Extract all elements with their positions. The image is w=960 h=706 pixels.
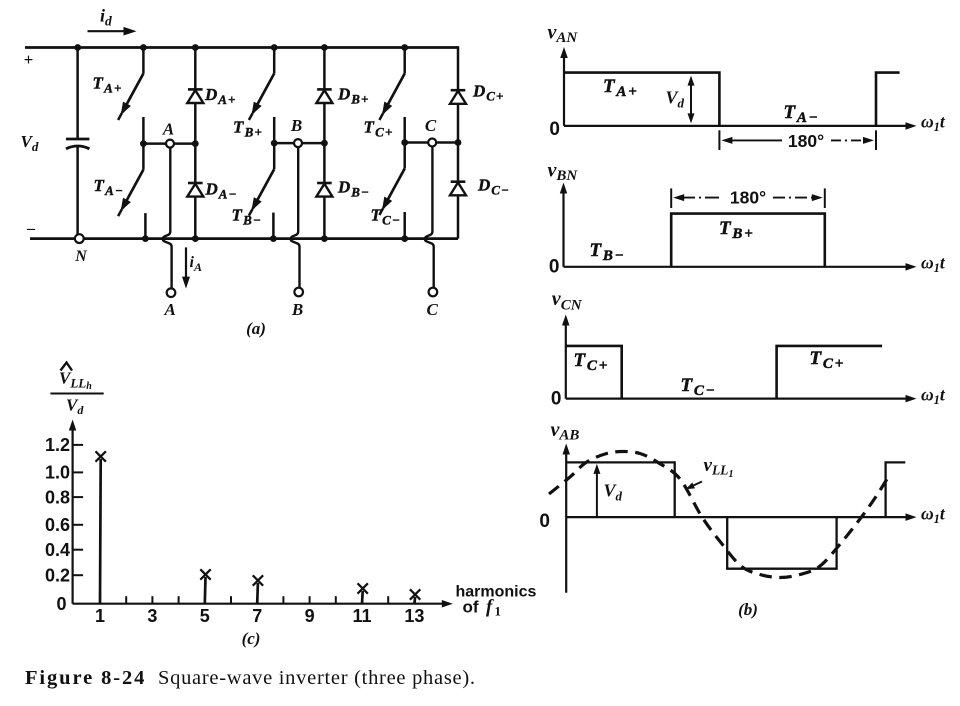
svg-text:id: id — [100, 6, 112, 29]
svg-text:TC+: TC+ — [364, 118, 394, 140]
harmonic spike n=13 — [413, 597, 416, 604]
junction dot top bus leg B switch — [271, 44, 278, 51]
harmonic spike n=7 — [256, 583, 259, 604]
svg-text:TC+: TC+ — [574, 350, 610, 374]
junction dot node C right — [455, 139, 462, 146]
svg-text:C: C — [425, 116, 437, 135]
diode DB- — [316, 183, 332, 197]
y tick 0.2 — [73, 574, 84, 576]
svg-text:TC+: TC+ — [810, 348, 846, 372]
svg-text:vCN: vCN — [552, 288, 583, 314]
node C open terminal on midpoint — [428, 139, 436, 147]
svg-text:180°: 180° — [788, 131, 824, 151]
svg-text:TC−: TC− — [681, 375, 717, 399]
svg-text:1: 1 — [495, 604, 502, 619]
wire phase node line C — [405, 141, 458, 144]
svg-text:vAB: vAB — [551, 419, 580, 444]
harmonic spike n=5 — [203, 577, 206, 604]
x tick 3 — [151, 596, 153, 604]
svg-text:TB+: TB+ — [233, 118, 263, 140]
svg-text:ω1t: ω1t — [921, 112, 946, 135]
svg-text:TA+: TA+ — [93, 74, 123, 96]
svg-text:TC−: TC− — [371, 206, 402, 228]
transistor TA+ upper switch — [118, 48, 143, 144]
junction dot node B left — [271, 140, 278, 147]
svg-text:N: N — [74, 248, 88, 265]
svg-text:B: B — [290, 116, 302, 135]
svg-text:vAN: vAN — [548, 22, 579, 47]
capacitor Vd dc-link — [66, 48, 89, 239]
junction dot bottom bus leg A diode branch — [192, 235, 199, 242]
svg-text:1.0: 1.0 — [45, 463, 70, 483]
y tick 1.2 — [73, 444, 84, 446]
wire diode branch leg B — [323, 48, 326, 91]
arrow iA current — [185, 247, 187, 278]
svg-text:(a): (a) — [246, 319, 266, 338]
svg-text:iA: iA — [190, 254, 202, 274]
svg-text:(b): (b) — [738, 600, 758, 619]
transistor TA- lower switch — [118, 144, 145, 239]
svg-text:0: 0 — [551, 389, 562, 410]
svg-text:B: B — [291, 300, 303, 319]
svg-text:A: A — [164, 300, 176, 319]
junction dot top bus leg A diode branch — [192, 44, 199, 51]
svg-text:Vd: Vd — [666, 88, 685, 111]
svg-text:ω1t: ω1t — [921, 253, 946, 276]
svg-text:vLL1: vLL1 — [704, 455, 734, 480]
svg-text:0.2: 0.2 — [45, 566, 70, 586]
diode DC- — [450, 182, 466, 196]
node B open terminal on midpoint — [294, 139, 302, 147]
svg-text:TA−: TA− — [94, 176, 125, 198]
svg-text:TB+: TB+ — [719, 218, 755, 242]
diode DC+ — [450, 90, 466, 104]
svg-text:Vd: Vd — [604, 481, 623, 504]
junction dot top bus / capacitor — [74, 44, 81, 51]
trace vCN square wave — [566, 346, 622, 399]
svg-text:0.4: 0.4 — [45, 540, 70, 560]
transistor TC+ upper switch — [379, 48, 404, 143]
svg-text:DB+: DB+ — [337, 85, 369, 107]
trace vBN square wave — [671, 214, 825, 267]
terminal B output — [294, 288, 303, 297]
svg-text:1: 1 — [95, 606, 105, 626]
svg-text:Vd: Vd — [66, 396, 84, 418]
junction dot node A right — [192, 140, 199, 147]
trace vAN square wave — [564, 73, 719, 126]
svg-text:180°: 180° — [730, 188, 766, 208]
svg-text:ω1t: ω1t — [921, 504, 946, 527]
junction dot top bus leg C switch — [401, 44, 408, 51]
svg-text:0.6: 0.6 — [45, 515, 70, 535]
svg-text:0: 0 — [549, 257, 560, 278]
svg-text:DA−: DA− — [205, 180, 238, 202]
wire phase A output with hop over bottom bus — [163, 148, 172, 289]
transistor TB+ upper switch — [249, 48, 274, 144]
svg-text:0.8: 0.8 — [45, 487, 70, 507]
svg-text:(c): (c) — [242, 629, 261, 648]
waveform panel vCN axes — [565, 324, 567, 399]
svg-text:0: 0 — [56, 594, 66, 614]
harmonic chart axes — [71, 428, 73, 604]
svg-text:7: 7 — [252, 606, 262, 626]
wire phase node line A — [143, 142, 195, 145]
svg-text:5: 5 — [200, 606, 210, 626]
svg-text:TA−: TA− — [784, 102, 820, 126]
svg-text:DC+: DC+ — [472, 82, 504, 104]
junction dot node A left — [140, 140, 147, 147]
svg-text:DA+: DA+ — [204, 85, 236, 107]
wire phase B output with hop over bottom bus — [291, 147, 300, 288]
x tick 8 — [282, 596, 284, 604]
svg-text:of: of — [463, 598, 479, 617]
terminal A output — [167, 288, 176, 297]
svg-text:TA+: TA+ — [603, 76, 639, 100]
dimension 180deg panel vAN — [719, 130, 876, 151]
x tick 6 — [230, 596, 232, 604]
svg-text:ω1t: ω1t — [921, 385, 946, 408]
svg-text:vBN: vBN — [548, 160, 579, 185]
svg-text:–: – — [26, 220, 36, 237]
svg-text:3: 3 — [147, 606, 157, 626]
harmonic spike n=11 — [361, 591, 364, 604]
harmonic spike n=1 — [99, 459, 102, 604]
junction dot node C left — [401, 139, 408, 146]
svg-text:Vd: Vd — [21, 132, 39, 154]
x tick 10 — [335, 596, 337, 604]
node A open terminal on midpoint — [166, 140, 174, 148]
junction dot bottom bus leg A switch — [142, 235, 149, 242]
diode DA+ — [187, 89, 203, 103]
svg-text:DC−: DC− — [477, 176, 510, 198]
trace vLL1 fundamental dashed sine — [549, 451, 890, 577]
svg-text:Figure 8-24: Figure 8-24 — [25, 667, 146, 689]
svg-text:1.2: 1.2 — [45, 435, 70, 455]
svg-text:Square-wave inverter (three ph: Square-wave inverter (three phase). — [158, 667, 476, 689]
x tick 9 — [309, 596, 311, 604]
dimension Vd arrow panel vAB — [596, 468, 598, 517]
wire phase node line B — [274, 142, 324, 145]
junction dot top bus leg A switch — [140, 44, 147, 51]
svg-text:TB−: TB− — [232, 206, 263, 228]
wire diode branch leg A — [194, 48, 197, 91]
svg-text:+: + — [24, 50, 34, 69]
waveform panel vAB axes — [565, 453, 567, 518]
junction dot top bus leg B diode branch — [321, 44, 328, 51]
waveform panel vAN axes — [563, 56, 565, 126]
label fraction VLLh over Vd — [50, 363, 103, 418]
junction dot bottom bus leg C switch — [401, 235, 408, 242]
wire top dc bus — [25, 46, 458, 49]
svg-text:A: A — [162, 120, 174, 139]
svg-text:0: 0 — [549, 119, 560, 140]
transistor TB- lower switch — [249, 143, 274, 239]
diode DB+ — [316, 89, 332, 103]
arrow id — [88, 30, 126, 32]
terminal C output — [429, 288, 438, 297]
x tick 12 — [387, 596, 389, 604]
junction dot bottom bus leg B switch — [270, 235, 277, 242]
y tick 0.4 — [73, 549, 84, 551]
svg-text:C: C — [427, 300, 439, 319]
svg-text:13: 13 — [404, 606, 424, 626]
x tick 4 — [178, 596, 180, 604]
trace vAB quasi-square wave — [566, 462, 675, 517]
wire bottom dc bus — [30, 237, 458, 240]
svg-text:TB−: TB− — [590, 240, 626, 264]
dimension Vd arrow panel vAN — [690, 79, 692, 120]
junction dot bottom bus leg B diode branch — [321, 235, 328, 242]
wire phase C output with hop over bottom bus — [425, 147, 434, 288]
waveform panel vBN axes — [562, 192, 564, 267]
diode DA- — [187, 183, 203, 197]
y tick 1.0 — [73, 471, 84, 473]
svg-text:DB−: DB− — [337, 178, 370, 200]
wire right leg-C diode branch — [457, 46, 460, 90]
x tick 2 — [125, 596, 127, 604]
node N terminal — [75, 234, 84, 243]
dimension 180deg panel vBN — [671, 188, 825, 209]
svg-text:11: 11 — [352, 606, 371, 626]
svg-text:9: 9 — [305, 606, 315, 626]
y tick 0.6 — [73, 524, 84, 526]
y tick 0.8 — [73, 496, 84, 498]
transistor TC- lower switch — [379, 143, 404, 239]
junction dot node B right — [321, 140, 328, 147]
svg-text:VLLh: VLLh — [59, 369, 92, 393]
svg-text:0: 0 — [539, 511, 550, 532]
